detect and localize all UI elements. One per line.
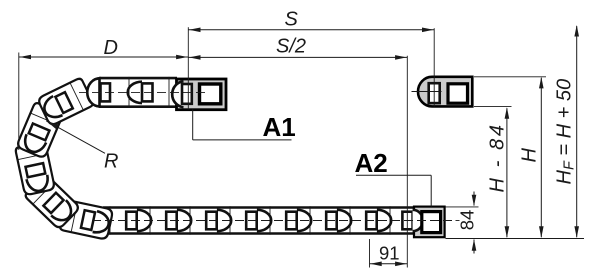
dimension 84 (arrows outside) — [473, 192, 475, 206]
pin, top link at x=89 — [101, 83, 111, 101]
node: link boundary x=169 (top run) — [168, 77, 170, 108]
extension line: left side of 91 — [369, 239, 371, 268]
node: link boundary x=129 (top run) — [128, 77, 130, 108]
wire: curved start of top run edges — [93, 78, 101, 81]
bend link B5 — [59, 200, 113, 240]
extension line at fixed point pin x=434 — [433, 28, 435, 106]
svg-text:H: H — [519, 148, 541, 163]
rounded left end cap of top run — [87, 78, 99, 106]
node: link boundary x=310 (bottom run) — [309, 206, 311, 235]
leader for bend radius R with arrow — [46, 121, 105, 154]
joint arc of A2 block — [413, 210, 423, 231]
mounting square of A1 block — [200, 84, 221, 104]
joint arc, bottom link at x=350 — [377, 210, 391, 231]
node: link boundary x=390 (bottom run) — [389, 206, 391, 235]
svg-text:S: S — [285, 9, 299, 31]
joint arc, bottom link at x=190 — [217, 210, 231, 231]
dimension S/2 — [188, 56, 407, 58]
joint arc, bottom link at x=110 — [137, 210, 151, 231]
chain bend (left 180-degree loop of cable carrier) — [15, 77, 113, 239]
pin, bottom link at x=190 — [206, 212, 217, 230]
svg-text:A1: A1 — [263, 112, 296, 142]
svg-text:91: 91 — [379, 243, 400, 264]
svg-text:HF = H + 50: HF = H + 50 — [554, 79, 578, 185]
bend link B2 — [16, 102, 63, 159]
pin, bottom link at x=310 — [326, 212, 337, 230]
joint arc of A1 block — [172, 81, 183, 107]
wire: bottom run upper edge — [103, 206, 415, 209]
dimension 91 — [370, 263, 408, 265]
top straight run of chain — [87, 77, 177, 108]
joint arc, bottom link at x=310 — [337, 210, 351, 231]
extension line: fixed point top edge to H line — [474, 76, 546, 78]
extension line: A2 block top to 84 dim — [446, 206, 479, 208]
ground baseline — [446, 238, 585, 240]
dimension H - 84 — [506, 108, 508, 237]
pin, bottom link at x=270 — [286, 212, 297, 230]
node: link boundary x=230 (bottom run) — [229, 206, 231, 235]
extension line at chain left extreme (for D) — [18, 53, 20, 151]
svg-text:84: 84 — [457, 210, 478, 231]
extension line: fixed point bottom edge to H-84 line — [474, 105, 512, 107]
extension line x=407 (S/2 and 91) — [406, 56, 408, 268]
svg-text:R: R — [104, 151, 118, 173]
dimension H — [540, 78, 542, 237]
dimension HF = H + 50 — [576, 26, 578, 237]
bend link B4 — [24, 174, 80, 230]
svg-text:A2: A2 — [355, 148, 388, 178]
leader for A1 — [192, 109, 194, 139]
joint arc, bottom link at x=270 — [297, 210, 311, 231]
pin, bottom link at x=230 — [246, 212, 257, 230]
pin, bottom link at x=390 (last before A2) — [402, 212, 412, 230]
pin, bottom link at x=150 — [166, 212, 177, 230]
mounting square of A2 block — [422, 212, 441, 233]
joint arc, bottom link at x=150 — [177, 210, 191, 231]
centerline of top run — [79, 91, 207, 93]
node: link boundary x=350 (bottom run) — [349, 206, 351, 235]
pin, bottom link at x=350 — [366, 212, 377, 230]
pin of fixed point bracket — [429, 83, 440, 103]
fixed end bracket A2 (grey block) — [414, 207, 445, 238]
dimension D — [19, 56, 189, 58]
node: link boundary x=190 (bottom run) — [189, 206, 191, 235]
moving end bracket A1 (grey block) — [177, 79, 227, 110]
bottom straight run of chain — [103, 206, 415, 235]
mounting square of fixed point bracket — [448, 84, 468, 103]
node: link boundary x=110 (bottom run) — [109, 206, 111, 235]
wire: top run upper edge — [99, 77, 177, 80]
svg-text:S/2: S/2 — [276, 35, 306, 57]
svg-text:D: D — [104, 37, 118, 59]
leader for A2 — [356, 174, 431, 176]
dimension S — [188, 29, 434, 31]
crosshair centerline of fixed point — [412, 91, 442, 93]
pin, bottom link at x=110 — [126, 212, 137, 230]
pin of A1 block — [182, 84, 192, 104]
wire: bottom run lower edge — [108, 232, 415, 235]
joint arc, bottom link at x=230 — [257, 210, 271, 231]
bend link B1 — [37, 77, 94, 126]
bend link B3 — [15, 142, 55, 196]
node: link boundary x=150 (bottom run) — [149, 206, 151, 235]
joint arc, top link at x=129 — [128, 82, 142, 103]
wire: top run lower edge — [99, 105, 177, 108]
node: link boundary x=270 (bottom run) — [269, 206, 271, 235]
pin, top link at x=129 — [142, 83, 153, 101]
centerline of bottom run — [92, 220, 452, 222]
svg-text:H - 84: H - 84 — [487, 122, 509, 192]
fixed point bracket (top right, grey capsule) — [418, 77, 472, 107]
extension line at A1 pin x=188 — [187, 27, 189, 109]
